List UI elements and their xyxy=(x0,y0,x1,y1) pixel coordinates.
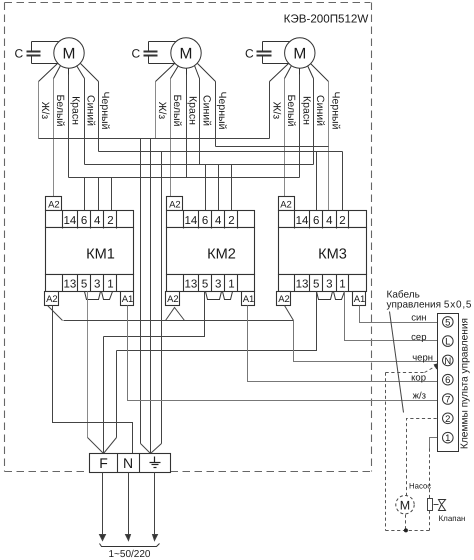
svg-text:сер: сер xyxy=(411,332,426,343)
svg-text:Черный: Черный xyxy=(99,92,111,130)
node PE bus (Ж/з wires common) xyxy=(39,138,270,140)
svg-text:Клапан: Клапан xyxy=(439,514,466,523)
svg-text:6: 6 xyxy=(445,375,450,386)
wire m3 Белый xyxy=(284,79,286,197)
svg-text:Клеммы пульта управления: Клеммы пульта управления xyxy=(460,318,471,449)
wire KM1 5/3/1 to F funnel xyxy=(87,292,89,438)
svg-text:A2: A2 xyxy=(280,200,292,211)
wire blue bus to KM2 terminal 6 xyxy=(205,165,207,212)
ground funnel xyxy=(141,444,162,454)
wire KM1 A1 to circle 7 xyxy=(128,306,443,401)
terminal circle 2 xyxy=(443,413,454,424)
node red bus (to KM1 contacts) xyxy=(69,177,300,179)
svg-text:КМ1: КМ1 xyxy=(86,247,115,263)
svg-text:A2: A2 xyxy=(278,294,290,305)
svg-text:Ж/з: Ж/з xyxy=(156,102,168,120)
svg-text:управления 5х0,5: управления 5х0,5 xyxy=(387,300,473,311)
wire m3 Черный (to KM3 terminal 4) xyxy=(328,82,330,212)
wire KM2 5/3/1 down xyxy=(104,292,205,337)
svg-text:5: 5 xyxy=(81,278,87,290)
capacitor C3 xyxy=(257,42,290,64)
svg-text:N: N xyxy=(123,455,133,471)
svg-text:A2: A2 xyxy=(46,294,58,305)
wire KM3 A2 diagonal xyxy=(285,306,294,321)
svg-text:A2: A2 xyxy=(167,294,179,305)
contactor KM1 xyxy=(45,197,134,306)
ground symbol xyxy=(150,457,161,468)
svg-text:7: 7 xyxy=(445,395,450,406)
svg-text:Белый: Белый xyxy=(54,95,66,127)
wire m1 Синий xyxy=(84,79,86,165)
svg-text:М: М xyxy=(180,46,193,63)
terminal circle 7 xyxy=(443,394,454,405)
svg-text:1: 1 xyxy=(339,278,345,290)
svg-text:Красн: Красн xyxy=(300,96,312,125)
motor M2 fan wires xyxy=(156,64,216,82)
svg-text:3: 3 xyxy=(326,278,332,290)
dashed wire circle 2 to pump xyxy=(386,419,443,531)
contactor KM3 xyxy=(277,197,367,306)
svg-text:A2: A2 xyxy=(169,200,181,211)
wire m2 Красн xyxy=(186,75,188,178)
KM2 jumper 3-1 xyxy=(223,292,233,300)
capacitor C1 xyxy=(27,42,59,64)
svg-text:6: 6 xyxy=(81,215,87,227)
svg-text:М: М xyxy=(400,498,410,512)
node blue bus (to KM2 contacts) xyxy=(85,164,314,166)
svg-text:Насос: Насос xyxy=(409,482,431,491)
contactor KM2 xyxy=(166,197,255,306)
svg-text:13: 13 xyxy=(185,278,198,290)
svg-text:син: син xyxy=(411,313,426,324)
dashed option link кор to N xyxy=(386,365,439,531)
svg-text:2: 2 xyxy=(228,215,234,227)
wire down-tap 3 to ground funnel xyxy=(161,152,163,444)
svg-text:13: 13 xyxy=(296,278,309,290)
wire circle 1 to valve xyxy=(430,438,443,449)
wire red bus to KM1 terminal 4 xyxy=(98,178,100,212)
svg-text:Белый: Белый xyxy=(171,95,183,127)
svg-text:Черный: Черный xyxy=(330,92,342,130)
svg-text:3: 3 xyxy=(94,278,100,290)
svg-text:1: 1 xyxy=(445,433,450,444)
node black link m2-m3 xyxy=(216,146,329,148)
wire PE bus down-tap 1 to ground funnel xyxy=(140,139,142,444)
wire KM2 5/3/1 to F funnel xyxy=(103,337,105,438)
wire m1 Красн xyxy=(68,75,70,178)
svg-text:М: М xyxy=(63,46,76,63)
wire KM3 5/3/1 down xyxy=(117,292,317,351)
wire PE bus down-tap 2 to ground funnel xyxy=(150,139,152,444)
wire black bus to KM3 terminal 6 xyxy=(316,152,318,212)
wire red bus to KM1 terminal 2 xyxy=(111,178,113,212)
svg-text:A1: A1 xyxy=(243,294,255,305)
svg-text:2: 2 xyxy=(339,215,345,227)
svg-text:C: C xyxy=(245,47,254,61)
wire KM3 A1 to circle 5 xyxy=(360,306,443,323)
svg-text:Синий: Синий xyxy=(314,95,326,126)
terminal circle 1 xyxy=(443,432,454,443)
svg-text:4: 4 xyxy=(215,215,222,227)
unit enclosure dashed border xyxy=(5,3,372,472)
svg-text:N: N xyxy=(444,356,451,367)
wire m2 Черный xyxy=(215,82,217,147)
svg-text:ж/з: ж/з xyxy=(413,390,426,401)
wire m1 Белый xyxy=(53,79,55,197)
svg-text:C: C xyxy=(15,47,24,61)
svg-text:3: 3 xyxy=(215,278,221,290)
labels motor1 wires xyxy=(39,92,111,130)
wire blue bus to KM2 terminal 4 xyxy=(218,165,220,212)
svg-text:1~50/220: 1~50/220 xyxy=(109,549,151,560)
labels motor3 wires xyxy=(270,92,341,130)
motor M1 xyxy=(54,38,84,68)
svg-text:13: 13 xyxy=(64,278,77,290)
pump motor М (Насос) xyxy=(396,496,414,514)
terminal circle L xyxy=(443,336,454,347)
svg-text:5: 5 xyxy=(202,278,208,290)
cable core labels xyxy=(411,313,433,402)
svg-text:КМ3: КМ3 xyxy=(318,247,347,263)
svg-text:4: 4 xyxy=(94,215,101,227)
svg-text:L: L xyxy=(445,337,450,348)
svg-text:1: 1 xyxy=(228,278,234,290)
cable leader line xyxy=(390,312,404,413)
svg-text:Ж/з: Ж/з xyxy=(270,102,282,120)
terminal circle 5 xyxy=(443,317,454,328)
svg-text:Красн: Красн xyxy=(70,96,82,125)
wire KM1 A2 to power N xyxy=(53,306,133,454)
svg-text:КМ2: КМ2 xyxy=(207,247,236,263)
wire m2 Ж/з xyxy=(155,82,157,139)
wire red bus to KM1 terminal 6 xyxy=(84,178,86,212)
wire m2 Синий xyxy=(199,79,201,165)
svg-text:М: М xyxy=(293,46,306,63)
wire KM3 1 to L circle xyxy=(345,292,443,341)
wire KM3 5/3/1 to F funnel xyxy=(116,351,118,438)
KM2 jumper 5-3 xyxy=(206,292,222,300)
wire m1 Черный xyxy=(98,82,100,152)
power terminal block F N PE xyxy=(90,454,171,473)
svg-text:Белый: Белый xyxy=(285,95,297,127)
svg-text:1: 1 xyxy=(107,278,113,290)
wire KM2 A1 to circle 6 xyxy=(248,306,443,382)
motor M1 fan wires xyxy=(39,64,99,82)
wire blue bus to KM2 terminal 2 xyxy=(231,165,233,212)
svg-text:4: 4 xyxy=(326,215,333,227)
KM1 jumper 5-3 xyxy=(85,292,101,300)
wire m1 Ж/з xyxy=(38,82,40,139)
svg-text:Черный: Черный xyxy=(216,92,228,130)
motor M3 xyxy=(285,38,315,68)
terminal circle N xyxy=(443,355,454,366)
wire KM1 A2 diagonal to A2 bus xyxy=(48,306,63,321)
wire m2 Белый xyxy=(170,79,172,197)
svg-text:кор: кор xyxy=(411,373,426,384)
svg-text:6: 6 xyxy=(202,215,208,227)
node A2 bus (neutral) xyxy=(64,320,294,322)
valve Клапан xyxy=(428,499,433,511)
svg-text:2: 2 xyxy=(445,414,450,425)
wire m3 Ж/з xyxy=(269,82,271,139)
bracket 1~50/220 xyxy=(100,544,160,547)
motor M3 fan wires xyxy=(270,64,329,82)
svg-text:Синий: Синий xyxy=(85,95,97,126)
svg-text:C: C xyxy=(132,47,141,61)
KM3 jumper 3-1 xyxy=(334,292,345,300)
KM3 jumper 5-3 xyxy=(317,292,333,300)
svg-text:5: 5 xyxy=(313,278,319,290)
wire A2 bus to черн/N circle xyxy=(294,321,443,362)
svg-text:КЭВ-200П512W: КЭВ-200П512W xyxy=(284,13,369,26)
power feed arrows xyxy=(100,473,158,541)
svg-text:Красн: Красн xyxy=(186,96,198,125)
svg-text:A1: A1 xyxy=(122,294,134,305)
svg-text:5: 5 xyxy=(445,317,450,328)
terminal circle 6 xyxy=(443,374,454,385)
wire m3 Красн xyxy=(299,75,301,178)
labels motor2 wires xyxy=(156,92,228,130)
wire KM2 A2 lambda xyxy=(166,308,185,321)
svg-text:6: 6 xyxy=(313,215,319,227)
F funnel xyxy=(88,438,117,454)
svg-text:A2: A2 xyxy=(48,200,60,211)
junction dot xyxy=(404,528,408,532)
svg-text:Синий: Синий xyxy=(201,95,213,126)
KM1 jumper 3-1 xyxy=(102,292,113,300)
node black bus m1 (to KM3 contacts 6,2) xyxy=(99,151,343,153)
control terminal block xyxy=(438,314,459,452)
svg-text:14: 14 xyxy=(64,215,77,227)
svg-text:14: 14 xyxy=(296,215,309,227)
svg-text:F: F xyxy=(99,455,108,471)
svg-text:14: 14 xyxy=(185,215,198,227)
svg-text:2: 2 xyxy=(107,215,113,227)
wire black bus to KM3 terminal 2 xyxy=(342,152,344,212)
wire m3 Синий xyxy=(313,79,315,165)
svg-text:Ж/з: Ж/з xyxy=(39,102,51,120)
motor M2 xyxy=(171,38,201,68)
svg-text:черн: черн xyxy=(412,352,433,363)
capacitor C2 xyxy=(144,42,176,64)
svg-text:A1: A1 xyxy=(354,294,366,305)
